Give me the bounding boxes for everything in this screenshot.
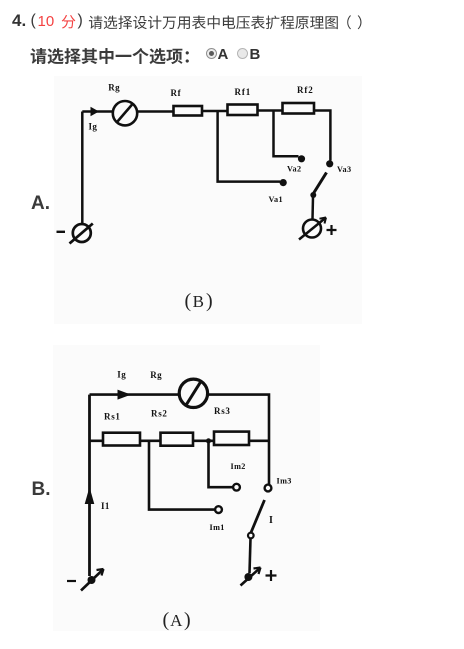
terminal Im3 (ring) — [265, 485, 272, 492]
wire: Rs1/Rs2 node down and right to Im1 — [149, 441, 215, 510]
terminal Va1 (dot) — [280, 179, 287, 186]
wire: switch down to plus terminal — [250, 539, 251, 574]
wire: left vertical from top-left corner down to minus terminal — [81, 112, 84, 225]
wire: galvanometer to resistor Rf — [138, 110, 174, 113]
resistor Rf1 — [228, 105, 258, 116]
plus probe terminal (circle with slash) — [299, 218, 326, 240]
svg-text:Im1: Im1 — [210, 523, 225, 532]
switch blade K — [251, 500, 265, 533]
svg-text:Ig: Ig — [89, 122, 98, 132]
resistor Rs3 — [214, 432, 249, 445]
option label B. — [32, 480, 51, 499]
svg-text:Rs3: Rs3 — [214, 406, 231, 416]
label minus — [67, 580, 76, 582]
resistor Rf2 — [283, 103, 315, 114]
wire: top horizontal into galvanometer — [90, 393, 180, 396]
svg-text:I: I — [269, 515, 273, 526]
label minus — [57, 231, 66, 233]
switch blade from Va3 — [314, 173, 327, 194]
label + — [266, 570, 277, 581]
current arrow Ig on top wire — [91, 107, 100, 116]
svg-text:Ig: Ig — [117, 369, 126, 379]
svg-text:Rg: Rg — [150, 370, 162, 380]
switch pivot dot — [310, 192, 316, 198]
svg-text:Va2: Va2 — [287, 165, 302, 174]
plus probe terminal (dot with arrow) — [241, 568, 261, 586]
wire: left vertical from top wire down to minus terminal — [88, 395, 91, 576]
minus probe terminal (dot with arrow) — [81, 569, 104, 591]
terminal Va3 (dot) — [326, 160, 333, 167]
svg-text:(A): (A) — [163, 609, 191, 631]
svg-text:Va3: Va3 — [337, 165, 352, 174]
label + — [327, 225, 337, 235]
circuit image 1 (option A, caption (B)) — [54, 76, 362, 324]
svg-text:Rf: Rf — [171, 88, 182, 98]
minus probe terminal (circle with slash) — [70, 224, 93, 244]
svg-text:I1: I1 — [101, 501, 110, 511]
terminal Im2 (ring) — [233, 484, 240, 491]
svg-text:Rf2: Rf2 — [297, 85, 314, 95]
circuit image 2 (option B, caption (A)) — [53, 345, 320, 631]
switch pivot ring — [248, 533, 254, 539]
svg-text:Im3: Im3 — [277, 477, 292, 486]
wire: tap at node between Rf1 and Rf2 down and right to Va2 — [274, 111, 299, 156]
svg-text:Rf1: Rf1 — [235, 87, 252, 97]
wire: galvanometer to top-right corner, down right vertical to Im3 — [208, 395, 269, 485]
option label A. — [31, 194, 50, 213]
resistor Rs1 — [103, 433, 140, 446]
svg-text:Rg: Rg — [108, 83, 120, 93]
terminal Va2 (dot) — [298, 155, 305, 162]
current arrow I1 (up) on left vertical — [85, 487, 95, 504]
current arrow Ig on top wire — [118, 390, 132, 400]
wire: switch to plus meter terminal — [311, 197, 314, 219]
wire: Rf2 to top-right corner, down to Va3 — [314, 111, 330, 161]
wire: Rs2/Rs3 node down and right to Im2 — [209, 441, 233, 487]
wire: top horizontal into galvanometer — [82, 110, 113, 113]
resistor Rf — [174, 106, 203, 116]
radio B — [237, 48, 248, 59]
svg-text:(B): (B) — [185, 290, 213, 312]
svg-text:Va1: Va1 — [269, 195, 284, 204]
terminal Im1 (ring) — [215, 506, 222, 513]
question header line 1 — [12, 12, 26, 29]
wire: resistor row — [90, 439, 270, 442]
svg-text:Im2: Im2 — [231, 462, 246, 471]
galvanometer Rg — [113, 101, 137, 125]
resistor Rs2 — [161, 433, 194, 446]
junction dot at Rs2/Rs3 node — [206, 438, 211, 443]
svg-text:Rs1: Rs1 — [104, 412, 121, 422]
wire: tap at node between Rf and Rf1 down and right to Va1 — [218, 112, 280, 182]
radio A (selected) — [206, 48, 217, 59]
galvanometer Rg — [179, 379, 207, 407]
wire: Rf to Rf1 — [202, 110, 228, 113]
wire: Rf1 to Rf2 — [258, 109, 283, 112]
svg-text:Rs2: Rs2 — [151, 409, 168, 419]
